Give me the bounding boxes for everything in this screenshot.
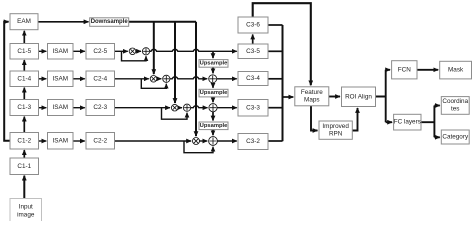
svg-text:Category: Category xyxy=(442,134,469,141)
svg-text:C1-1: C1-1 xyxy=(17,163,31,170)
svg-text:EAM: EAM xyxy=(17,18,31,25)
svg-text:Feature: Feature xyxy=(301,89,323,96)
svg-text:Coordina: Coordina xyxy=(442,98,468,105)
svg-text:ISAM: ISAM xyxy=(52,104,68,111)
svg-text:Mask: Mask xyxy=(448,67,464,74)
svg-text:RPN: RPN xyxy=(329,130,343,137)
svg-text:FC layers: FC layers xyxy=(394,119,421,126)
svg-text:ISAM: ISAM xyxy=(52,75,68,82)
svg-text:C3-3: C3-3 xyxy=(246,104,260,111)
svg-text:C2-2: C2-2 xyxy=(93,137,107,144)
svg-text:ISAM: ISAM xyxy=(52,48,68,55)
svg-text:ROI Align: ROI Align xyxy=(345,93,372,100)
svg-text:C3-2: C3-2 xyxy=(246,138,260,145)
svg-text:Upsample: Upsample xyxy=(200,123,228,129)
svg-text:Maps: Maps xyxy=(304,97,320,104)
svg-text:C2-5: C2-5 xyxy=(93,48,107,55)
svg-text:Upsample: Upsample xyxy=(200,90,228,96)
svg-text:C3-5: C3-5 xyxy=(246,48,260,55)
svg-text:C1-5: C1-5 xyxy=(17,48,31,55)
svg-text:C2-4: C2-4 xyxy=(93,75,107,82)
svg-text:tes: tes xyxy=(451,106,459,113)
svg-text:C3-6: C3-6 xyxy=(246,22,260,29)
svg-text:C1-4: C1-4 xyxy=(17,75,31,82)
svg-text:C3-4: C3-4 xyxy=(246,75,260,82)
svg-text:ISAM: ISAM xyxy=(52,137,68,144)
svg-text:Downsample: Downsample xyxy=(91,19,129,25)
svg-text:Input: Input xyxy=(19,204,33,211)
svg-text:FCN: FCN xyxy=(398,66,411,73)
svg-text:C2-3: C2-3 xyxy=(93,104,107,111)
svg-text:image: image xyxy=(17,211,35,218)
svg-text:Improved: Improved xyxy=(322,123,349,130)
svg-text:C1-2: C1-2 xyxy=(17,137,31,144)
svg-text:Upsample: Upsample xyxy=(200,60,228,66)
svg-text:C1-3: C1-3 xyxy=(17,104,31,111)
